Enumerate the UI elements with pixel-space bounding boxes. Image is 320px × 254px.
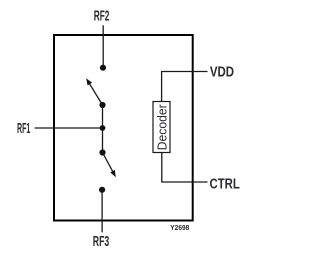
switch arm to RF2 (open, arrow): [86, 78, 102, 105]
node RF1 common junction: [100, 125, 106, 131]
node RF3 throw terminal: [99, 187, 105, 193]
wire VDD lead: [162, 72, 208, 102]
wire pivot link: [102, 105, 104, 153]
wire CTRL lead: [162, 153, 208, 183]
svg-text:CTRL: CTRL: [210, 177, 240, 193]
svg-text:RF3: RF3: [93, 234, 110, 250]
chip outline: [54, 35, 193, 221]
wire RF1 lead: [35, 127, 103, 129]
node RF2 throw terminal: [100, 65, 106, 71]
decoder U1: [153, 102, 170, 153]
wire RF2 lead: [102, 25, 104, 67]
svg-text:RF2: RF2: [94, 8, 110, 24]
node upper pivot: [99, 102, 105, 108]
svg-text:Decoder: Decoder: [155, 104, 169, 150]
svg-text:VDD: VDD: [210, 65, 234, 81]
wire RF3 lead: [101, 190, 103, 233]
svg-text:RF1: RF1: [17, 121, 30, 137]
switch arm to RF3 (open, arrow): [103, 153, 116, 178]
svg-text:Y2698: Y2698: [170, 223, 189, 232]
node lower pivot: [99, 149, 105, 155]
